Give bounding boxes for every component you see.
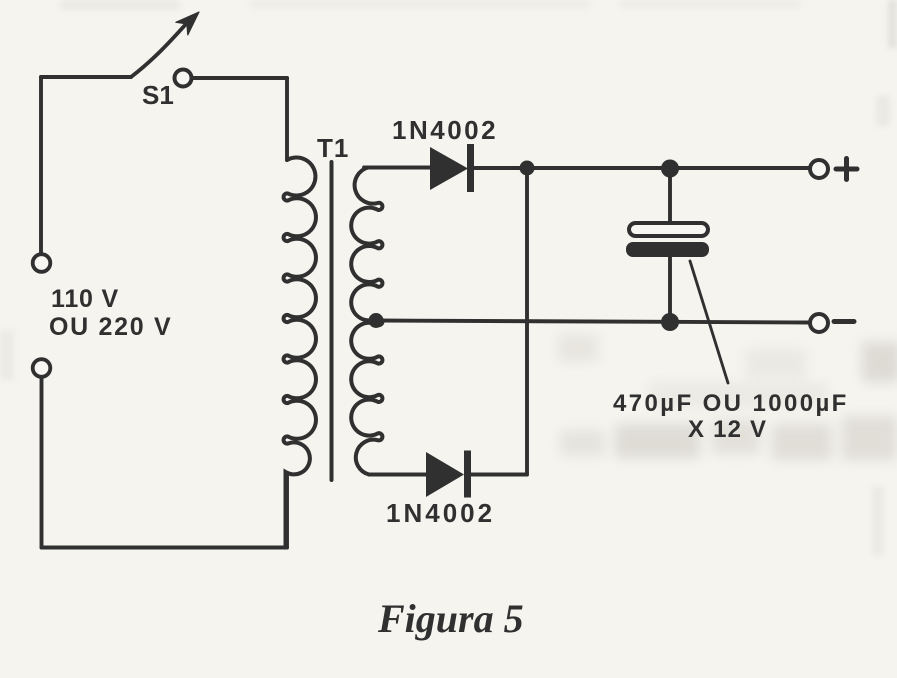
terminal circle lower (110V input) <box>33 359 51 377</box>
transformer T1 core line <box>330 162 334 480</box>
wire D2 to junction <box>468 473 527 477</box>
svg-text:1N4002: 1N4002 <box>386 498 495 528</box>
minus sign <box>834 319 854 324</box>
diode D2 (1N4002 bottom) triangle <box>426 452 464 497</box>
scan bleed-through mottling (decorative) <box>558 334 897 460</box>
transformer T1 secondary winding <box>351 168 382 475</box>
node: diode D1 output junction dot <box>520 161 535 176</box>
svg-text:OU 220 V: OU 220 V <box>49 313 172 341</box>
wire secondary bottom to diode D2 <box>369 473 426 477</box>
terminal circle + output <box>810 160 828 178</box>
switch S1 contact circle <box>175 70 192 87</box>
switch S1 arrowhead <box>176 12 199 35</box>
plus sign <box>836 159 857 180</box>
terminal circle upper (110V input) <box>33 254 51 272</box>
wire D1 to + terminal <box>472 166 808 170</box>
wire secondary top to diode D1 <box>364 166 430 170</box>
svg-text:X 12 V: X 12 V <box>688 416 767 443</box>
switch S1 blade <box>131 24 186 77</box>
node: capacitor top junction dot <box>661 160 679 178</box>
capacitor C1 bottom plate (solid) <box>626 242 709 257</box>
node: capacitor bottom junction dot <box>661 313 679 331</box>
svg-text:470µF OU 1000µF: 470µF OU 1000µF <box>613 390 849 417</box>
svg-text:110 V: 110 V <box>51 285 119 313</box>
transformer T1 primary winding <box>284 157 316 547</box>
wire center tap to - terminal <box>378 321 808 323</box>
diode D2 cathode bar <box>464 451 471 498</box>
diode D1 cathode bar <box>467 144 474 192</box>
svg-text:Figura 5: Figura 5 <box>377 596 524 641</box>
svg-text:T1: T1 <box>317 133 349 163</box>
wire lower-left vertical <box>40 378 44 548</box>
diode D1 (1N4002 top) triangle <box>430 147 468 190</box>
capacitor C1 top plate (hollow) <box>629 223 708 236</box>
wire bottom horizontal <box>42 546 288 550</box>
wire capacitor bottom lead <box>668 257 672 322</box>
wire vertical junction line (diode bridge right side) <box>525 168 529 475</box>
wire from S1 to right corner <box>192 76 287 80</box>
wire top-left horizontal <box>41 75 131 79</box>
wire bottom right vertical up to primary <box>285 473 289 548</box>
wire right vertical down to transformer primary <box>285 78 289 160</box>
capacitor pointer line to value label <box>690 261 728 383</box>
terminal circle - output <box>810 314 828 332</box>
svg-text:S1: S1 <box>142 80 174 110</box>
wire capacitor top lead <box>668 168 672 222</box>
node: center tap junction dot <box>369 313 384 328</box>
svg-text:1N4002: 1N4002 <box>392 115 498 145</box>
wire left vertical to 110V terminal <box>39 77 43 253</box>
